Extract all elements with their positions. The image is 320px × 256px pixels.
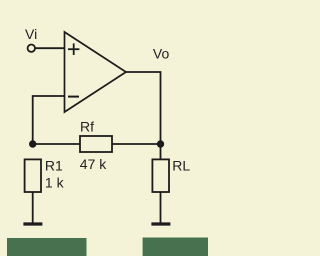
wire output to Vo: [126, 72, 161, 160]
ground left: [23, 222, 42, 225]
svg-text:RL: RL: [172, 158, 190, 174]
resistor R1: [25, 159, 41, 192]
wire inverting input feedback: [33, 96, 65, 144]
decorative green band right: [143, 238, 208, 256]
op-amp U1: [65, 32, 127, 112]
svg-text:R1: R1: [45, 158, 63, 174]
wire RL to ground: [160, 192, 162, 224]
svg-text:47 k: 47 k: [80, 156, 107, 172]
wire R1 to ground: [32, 192, 34, 224]
junction node B: [157, 140, 164, 147]
input terminal Vi: [28, 45, 35, 52]
ground right: [151, 222, 170, 225]
wire feedback node to Rf: [33, 143, 80, 145]
decorative green band left: [7, 238, 87, 256]
svg-text:Vi: Vi: [25, 26, 37, 42]
junction node A: [29, 140, 36, 147]
resistor RL: [152, 159, 169, 192]
svg-text:Rf: Rf: [80, 119, 94, 135]
resistor Rf: [80, 136, 112, 152]
wire Rf to output node: [112, 143, 161, 145]
wire non-inverting input: [36, 47, 65, 49]
svg-text:1 k: 1 k: [45, 174, 65, 190]
svg-text:Vo: Vo: [153, 46, 170, 62]
